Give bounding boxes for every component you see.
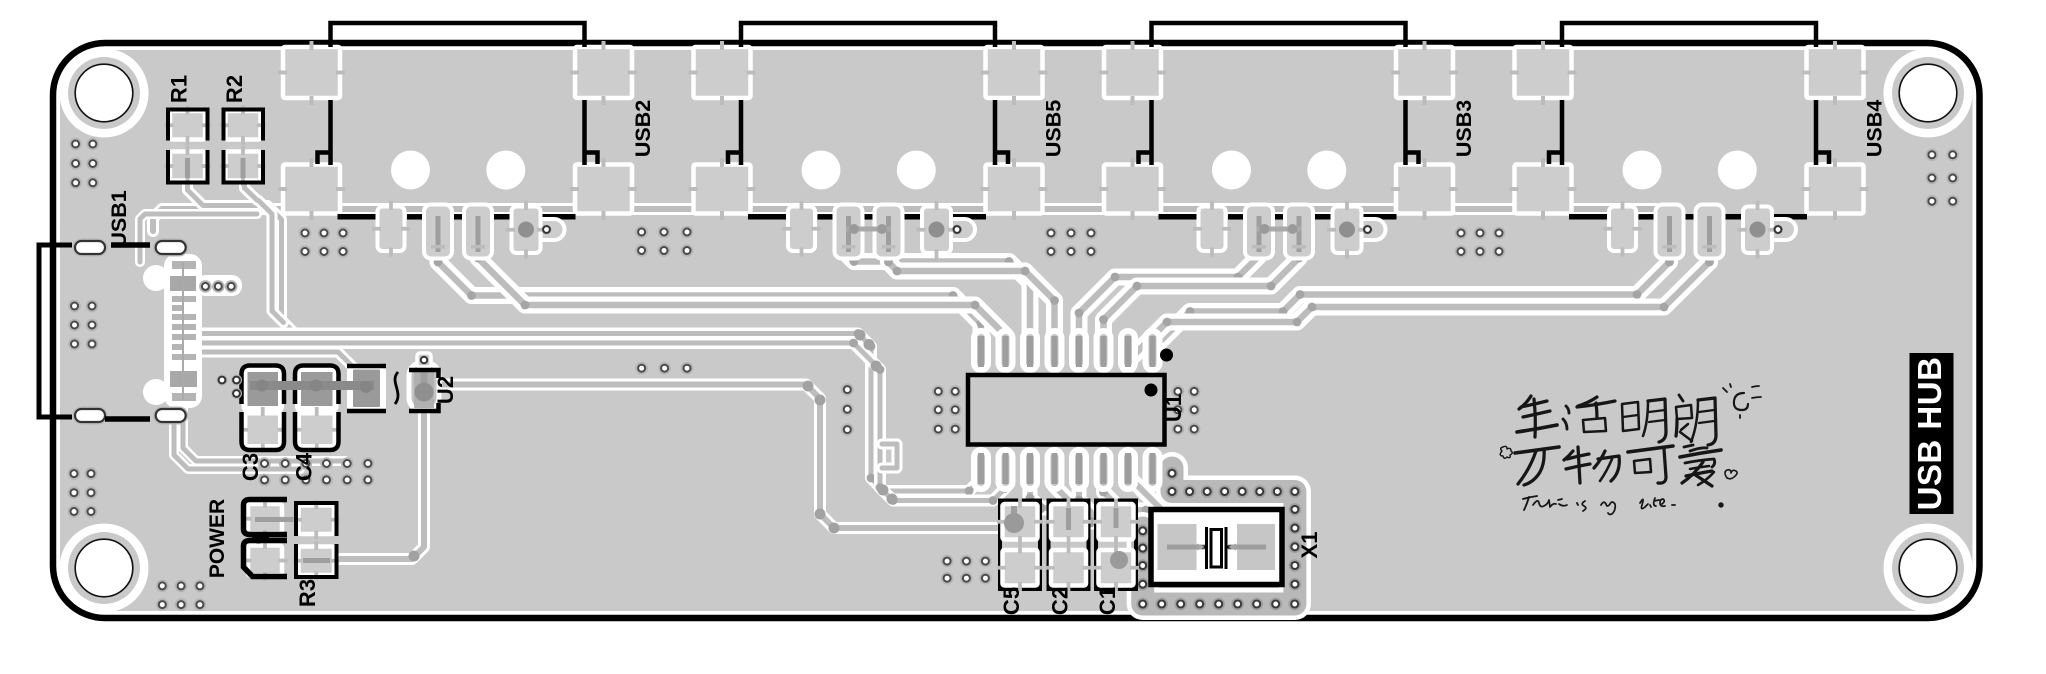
wire USB5 D+ pair: [884, 250, 1059, 352]
via cluster USB3-USB4: [1455, 227, 1506, 258]
mounting hole: [60, 524, 149, 613]
wire U1 to crystal B: [1148, 470, 1222, 523]
wire U1 to crystal A: [1124, 470, 1206, 530]
svg-text:U1: U1: [1161, 394, 1186, 422]
via cluster left-mid: [68, 300, 98, 351]
via row USB1: [199, 280, 237, 293]
mounting hole: [60, 49, 149, 138]
connector POWER: [243, 499, 300, 582]
flower doodle: [1500, 446, 1512, 458]
mounting hole: [1884, 524, 1973, 613]
capacitor C3: [239, 366, 287, 453]
USB connector USB5: [689, 41, 1048, 259]
via cluster USB2-USB5: [635, 226, 693, 257]
wire power row dark trace: [250, 381, 374, 390]
calligraphy huo: [1566, 406, 1569, 413]
wire U1 to C2: [1026, 470, 1068, 522]
USB connector USB1: [143, 254, 242, 408]
wire USB4 D- pair: [1148, 250, 1674, 360]
USB3 silkscreen shell: [1152, 23, 1406, 47]
via dots at trace bends: [803, 381, 814, 392]
wire U1 stub2: [1099, 470, 1160, 524]
wire VBUS stub: [794, 209, 804, 226]
wire U2 to R3: [340, 405, 424, 559]
USB connector USB2: [278, 41, 637, 259]
capacitor C5: [997, 499, 1043, 592]
svg-text:C1: C1: [1095, 587, 1120, 615]
wire VBUS rail: [153, 209, 1666, 231]
via cluster USB5-USB3: [1045, 227, 1098, 258]
wire USB3 D- pair: [1075, 250, 1264, 352]
svg-text:USB HUB: USB HUB: [1911, 357, 1948, 511]
via cluster left-low: [68, 467, 98, 517]
via cluster bottom-left: [156, 580, 206, 611]
filter pad L1: [350, 367, 383, 411]
calligraphy wu: [1564, 451, 1573, 460]
wire U2 out to C5: [440, 385, 1014, 529]
svg-text:C2: C2: [1048, 587, 1073, 615]
svg-text:POWER: POWER: [206, 499, 229, 578]
wire USB1 data pair A: [196, 329, 985, 495]
resistor R1: [165, 106, 211, 187]
crystal X1: [1151, 510, 1282, 585]
via column mid: [841, 383, 854, 436]
calligraphy ming: [1622, 402, 1639, 431]
wire U1 to C1: [1050, 470, 1102, 526]
wire USB1 shield stitch B: [174, 400, 300, 469]
crystal X1 guard ring band: [1143, 468, 1295, 604]
svg-text:USB3: USB3: [1452, 100, 1476, 157]
wire USB1 shield stitch A: [183, 400, 345, 461]
svg-text:R1: R1: [167, 75, 192, 103]
USB1 silkscreen body: [39, 245, 72, 417]
wire USB1 vertical link: [140, 214, 257, 262]
wire VBUS stub: [1205, 209, 1215, 226]
svg-text:X1: X1: [1297, 532, 1322, 559]
USB connector USB3: [1099, 41, 1458, 259]
via triple near strip exit: [217, 375, 243, 400]
wire USB1 D- to R1: [188, 176, 296, 334]
USB2 silkscreen shell: [331, 23, 585, 47]
U1 outer dot: [1160, 349, 1173, 362]
wire USB3 D+ pair: [1099, 250, 1303, 352]
wire USB2 D+ pair: [474, 250, 1010, 352]
capacitor C2: [1046, 499, 1092, 592]
svg-text:R3: R3: [295, 579, 320, 607]
resistor R2: [220, 106, 266, 187]
sun doodle: [1734, 393, 1748, 410]
USB connector USB4: [1510, 41, 1869, 259]
capacitor C4: [293, 366, 342, 453]
wire bump detour: [882, 444, 897, 468]
calligraphy ke: [1628, 446, 1673, 452]
label USB HUB: [1910, 353, 1954, 514]
wire USB4 D+ pair: [1124, 250, 1714, 366]
op-amp U1 hub controller: [974, 331, 1160, 489]
svg-text:C4: C4: [292, 452, 317, 481]
mounting hole: [1884, 49, 1973, 138]
USB4 silkscreen shell: [1562, 23, 1816, 47]
via cluster near C5: [941, 555, 992, 585]
via cluster top-left: [69, 138, 99, 189]
wire U1 stub: [1075, 470, 1100, 521]
svg-text:USB1: USB1: [107, 190, 131, 247]
via cluster top-right: [1926, 149, 1959, 208]
calligraphy sheng: [1519, 396, 1531, 409]
via cluster left of U1: [932, 385, 962, 435]
via cluster right of U1: [1172, 385, 1201, 435]
heart doodle: [1725, 470, 1737, 479]
wire VBUS stub: [384, 209, 394, 226]
wire USB1 power to filter row: [196, 352, 362, 376]
USB5 silkscreen shell: [741, 23, 995, 47]
svg-text:U2: U2: [433, 376, 458, 404]
via cluster left of USB2: [299, 227, 350, 258]
svg-text:USB2: USB2: [631, 100, 655, 157]
wire USB5 D- pair: [844, 250, 1034, 352]
wire USB1 D+ to R2: [245, 176, 284, 323]
wire VBUS stub: [1615, 209, 1625, 226]
svg-text:USB4: USB4: [1863, 100, 1887, 157]
calligraphy lang: [1679, 395, 1683, 401]
wire USB1 data pair B: [196, 339, 1009, 505]
calligraphy wan: [1515, 447, 1559, 453]
svg-text:C3: C3: [238, 453, 263, 481]
via row mid-board: [635, 362, 693, 375]
calligraphy ai: [1684, 445, 1693, 447]
wire USB2 D- pair: [434, 250, 986, 352]
USB1 mount pads: [73, 239, 108, 257]
capacitor C1: [1093, 499, 1139, 592]
U1 pin1 dot: [1145, 384, 1158, 397]
regulator U2: [409, 353, 439, 411]
via grid below C3 C4: [258, 457, 374, 486]
copper pour: [60, 50, 1973, 611]
svg-text:C5: C5: [999, 587, 1024, 615]
resistor R3: [293, 500, 340, 581]
polarity squiggle: [395, 372, 398, 404]
svg-text:USB5: USB5: [1042, 100, 1066, 157]
handwriting That is my life: [1523, 496, 1537, 499]
svg-text:R2: R2: [222, 75, 247, 103]
